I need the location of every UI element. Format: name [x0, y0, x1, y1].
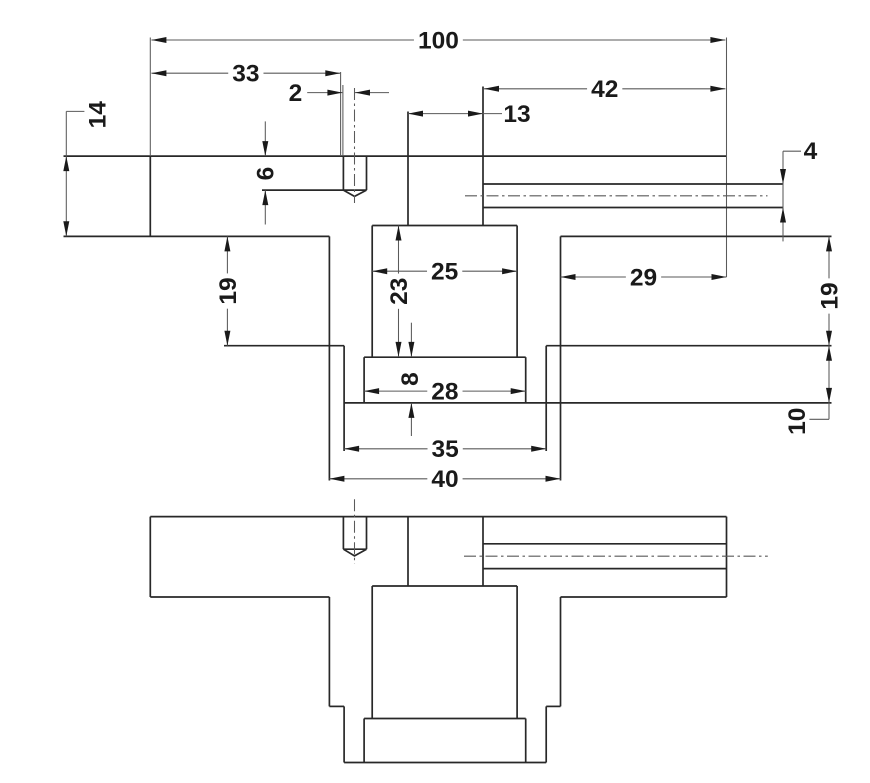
- boss top line: [372, 225, 517, 227]
- hole bottom shoulder + extension for dim 6: [262, 189, 367, 191]
- svg-text:19: 19: [816, 282, 843, 309]
- svg-text:25: 25: [431, 259, 458, 286]
- view2 base plate right wall: [525, 719, 527, 763]
- dimension 10: [784, 346, 832, 435]
- svg-text:33: 33: [232, 61, 259, 88]
- base plate right wall: [525, 357, 527, 403]
- dimension 25: [372, 259, 517, 286]
- view2 inner slot left wall: [343, 706, 345, 762]
- boss right wall: [516, 226, 518, 358]
- hole vertical centerline: [354, 88, 356, 203]
- svg-text:28: 28: [431, 379, 458, 406]
- view2 boss right wall: [516, 586, 518, 719]
- extension line for dim 33: [340, 72, 342, 156]
- dimension 2: [289, 80, 389, 107]
- view2 hole vertical centerline: [354, 499, 356, 564]
- view2 hole bottom shoulder: [343, 548, 366, 550]
- dimension 23: [386, 226, 413, 357]
- view2 side slot centerline: [464, 555, 768, 557]
- svg-text:100: 100: [418, 27, 459, 54]
- side slot centerline: [465, 195, 768, 197]
- right step line at y=345.7 + extension to dim 19R: [546, 345, 831, 347]
- svg-text:10: 10: [784, 408, 811, 435]
- view2 base plate top line: [364, 718, 526, 720]
- svg-text:29: 29: [630, 264, 657, 291]
- dimension 100: [151, 27, 725, 54]
- slot left wall (40 wide) + extension to dim 40: [328, 236, 330, 480]
- dimension 33: [151, 61, 340, 88]
- dimension 42: [484, 76, 725, 103]
- part top face line: [64, 155, 727, 157]
- view2 side slot upper line: [483, 543, 727, 545]
- hole conical tip: [343, 190, 366, 196]
- view2 boss top line: [372, 585, 517, 587]
- view2 left step line: [329, 705, 344, 707]
- view2 hole right wall: [366, 517, 368, 550]
- view2 inner slot right wall: [545, 706, 547, 762]
- view2 slot left wall: [328, 597, 330, 706]
- dimension 28: [364, 379, 526, 406]
- view2 right step line: [546, 705, 560, 707]
- base plate top line: [364, 356, 526, 358]
- svg-text:19: 19: [215, 277, 242, 304]
- base plate left wall: [363, 357, 365, 403]
- svg-text:2: 2: [289, 80, 303, 107]
- neck right wall + extension for dim 42: [482, 87, 484, 226]
- dimension 4: [780, 138, 818, 241]
- view2 hole conical tip: [343, 549, 366, 556]
- left step line at y=345.7 + extension to dim 19: [224, 345, 344, 347]
- view2 neck right wall: [482, 517, 484, 586]
- view2 side slot lower line: [483, 568, 727, 570]
- view2 base plate left wall: [363, 719, 365, 763]
- view2 left edge: [149, 517, 151, 597]
- part left edge + extension for dims 100/33: [149, 38, 151, 237]
- right flange bottom line + extension: [561, 235, 832, 237]
- inner slot right wall (35 wide) + extension to dim 35: [545, 346, 547, 451]
- view2 right flange bottom: [561, 596, 727, 598]
- dimension 19 left: [215, 236, 242, 345]
- view2 right edge: [726, 517, 728, 597]
- hole right wall: [366, 156, 368, 190]
- svg-text:13: 13: [503, 101, 530, 128]
- left flange bottom line: [64, 235, 330, 237]
- dimension 6: [253, 121, 280, 224]
- view2 boss left wall: [371, 586, 373, 719]
- view2 top face line: [150, 516, 726, 518]
- boss left wall: [371, 226, 373, 358]
- svg-text:14: 14: [85, 101, 112, 129]
- view2 slot right wall: [560, 597, 562, 706]
- neck left wall + extension for dim 13: [407, 112, 409, 226]
- dimension 14: [63, 101, 111, 236]
- svg-text:35: 35: [432, 436, 459, 463]
- dimension 8: [397, 323, 424, 436]
- svg-text:4: 4: [804, 138, 818, 165]
- dimension 19 right: [816, 236, 843, 345]
- side slot upper line + extension for dim 4: [483, 183, 783, 185]
- svg-text:42: 42: [591, 76, 618, 103]
- inner slot left wall (35 wide) + extension to dim 35: [343, 346, 345, 451]
- svg-text:6: 6: [253, 167, 280, 181]
- dimension 40: [329, 466, 560, 493]
- part right edge + extension for dims 100/42/29: [726, 38, 728, 278]
- side slot lower line + extension for dim 4: [483, 207, 783, 209]
- view2 slot bottom line: [344, 762, 546, 764]
- svg-text:40: 40: [431, 466, 458, 493]
- svg-text:23: 23: [386, 278, 413, 305]
- dimension 13: [408, 101, 531, 128]
- dimension 35: [344, 436, 546, 463]
- view2 hole left wall: [342, 517, 344, 550]
- slot bottom line + extension to dim 10: [344, 402, 831, 404]
- slot right wall (40 wide) + extension to dim 40: [560, 236, 562, 480]
- view2 left flange bottom: [150, 596, 329, 598]
- extension line for dim 2: [342, 85, 344, 156]
- hole left wall: [342, 156, 344, 190]
- svg-text:8: 8: [397, 372, 424, 386]
- view2 neck left wall: [407, 517, 409, 586]
- dimension 29: [561, 264, 727, 291]
